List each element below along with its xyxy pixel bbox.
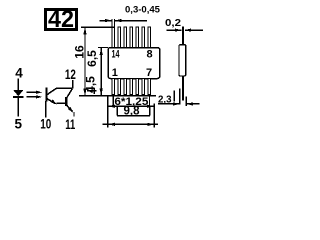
svg-text:6,5: 6,5 — [85, 50, 99, 67]
light arrow 2 — [27, 95, 43, 98]
svg-text:1: 1 — [112, 67, 118, 79]
left extension line body edge — [107, 96, 109, 128]
side view bottom pin — [182, 76, 184, 100]
dimension 0,3-0,45 pin width — [100, 5, 161, 28]
top extension line (pin tips) — [81, 26, 115, 28]
transistor Q1 collector — [47, 80, 72, 95]
svg-text:10: 10 — [40, 116, 51, 131]
svg-text:5: 5 — [14, 116, 22, 131]
svg-text:12: 12 — [65, 67, 76, 82]
transistor Q2 emitter with arrow — [67, 106, 74, 113]
dimension 16 overall length — [73, 28, 87, 96]
svg-text:14: 14 — [112, 49, 121, 61]
top pin row — [112, 27, 151, 48]
bottom pin row — [112, 79, 151, 95]
side view body — [179, 45, 186, 76]
light arrow 1 — [27, 91, 43, 94]
LED anode wire — [17, 78, 19, 90]
svg-text:42: 42 — [48, 6, 74, 33]
dimension 6,5 — [85, 48, 108, 96]
label 4,5 — [84, 76, 98, 94]
wire pin 11 — [73, 112, 75, 117]
svg-text:4: 4 — [15, 66, 23, 81]
dimension 0,2 pin thickness — [165, 17, 203, 32]
wire Q1 emitter to Q2 base — [57, 102, 66, 104]
transistor Q1 emitter with arrow — [47, 99, 57, 105]
svg-text:11: 11 — [65, 117, 75, 132]
transistor Q2 collector — [67, 89, 72, 98]
dimension 9,8 body width — [103, 106, 158, 126]
wire pin 10 — [45, 101, 47, 117]
side view top pin — [182, 27, 184, 45]
dimension 2,3 lead offset — [158, 89, 200, 107]
transistor Q1 base bar — [45, 87, 47, 101]
LED D1 — [13, 90, 23, 97]
dimension 6*1,25 pin pitch — [108, 96, 153, 108]
transistor Q2 base bar — [65, 97, 67, 106]
figure number box 42 — [46, 6, 77, 33]
svg-text:8: 8 — [147, 49, 153, 61]
bottom extension line (pin tips) — [79, 95, 156, 97]
svg-text:0,2: 0,2 — [165, 17, 181, 29]
svg-text:7: 7 — [146, 67, 152, 79]
svg-text:9,8: 9,8 — [124, 106, 141, 118]
LED cathode wire — [17, 97, 19, 117]
svg-text:0,3-0,45: 0,3-0,45 — [125, 5, 161, 16]
right extension line — [153, 104, 155, 128]
IC body top view — [108, 48, 160, 79]
